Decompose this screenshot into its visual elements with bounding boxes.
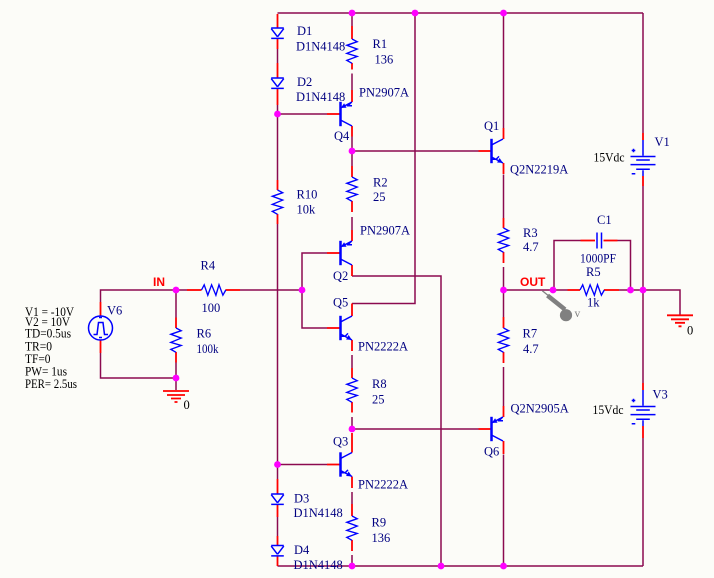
pin Q6 emitter <box>503 406 505 417</box>
svg-text:1000PF: 1000PF <box>580 252 616 266</box>
wire Q3 collector node to Q6 base <box>352 428 479 430</box>
pin R6 bottom <box>175 352 177 363</box>
resistor R7 <box>498 328 508 352</box>
svg-text:C1: C1 <box>597 213 612 227</box>
pin R7 top <box>503 317 505 328</box>
wire left rail node to D3 <box>277 465 279 480</box>
svg-text:R7: R7 <box>523 327 538 341</box>
wire Q4 collector to node <box>351 137 353 152</box>
wire OUT node to R7 <box>503 290 505 317</box>
svg-text:PN2907A: PN2907A <box>359 86 409 100</box>
svg-text:0: 0 <box>687 324 693 338</box>
wire Q1 emitter to R3 <box>503 175 505 219</box>
wire ground stem left <box>175 378 177 390</box>
wire -15V bottom rail <box>278 565 644 567</box>
resistor R10 <box>272 190 282 214</box>
svg-text:D1N4148: D1N4148 <box>294 506 343 520</box>
pin R9 top <box>351 504 353 516</box>
svg-text:Q5: Q5 <box>333 296 348 310</box>
pin R10 bottom <box>277 214 279 224</box>
node junction (643,290) <box>640 287 647 294</box>
wire Q5 collector to +rail <box>352 13 415 304</box>
pin V1 minus <box>642 176 644 186</box>
node junction (441,566) <box>438 563 445 570</box>
wire R9 bottom to -rail <box>351 555 353 566</box>
wire R2 bottom to Q2 emitter <box>351 217 353 230</box>
node junction (352,151) <box>349 148 356 155</box>
svg-text:D1N4148: D1N4148 <box>294 558 343 572</box>
node junction (176,378) <box>173 375 180 382</box>
resistor R6 <box>171 328 181 352</box>
diode D1 <box>271 28 284 38</box>
pin R6 top <box>175 318 177 329</box>
node junction (277.5,114) <box>274 111 281 118</box>
node junction (630.5,290) <box>627 287 634 294</box>
svg-text:15Vdc: 15Vdc <box>594 151 625 165</box>
node junction (503.5,13) <box>500 10 507 17</box>
svg-text:25: 25 <box>372 393 385 407</box>
voltage source V1 (battery) <box>631 140 656 176</box>
wire R7 bottom to Q6 emitter <box>503 367 505 406</box>
svg-text:D3: D3 <box>294 492 309 506</box>
wire left rail node to R10 <box>277 114 279 180</box>
wire node to R2 top <box>351 151 353 166</box>
svg-text:D2: D2 <box>297 75 312 89</box>
svg-text:v: v <box>575 308 581 320</box>
svg-text:0: 0 <box>184 398 190 412</box>
svg-text:V1: V1 <box>655 135 670 149</box>
pin R4 right <box>226 289 241 291</box>
node junction (415,13) <box>412 10 419 17</box>
pin Q3 emitter <box>351 477 353 489</box>
diode D2 <box>271 78 284 88</box>
pin C1 right <box>604 240 618 242</box>
pin R2 bottom <box>351 201 353 212</box>
wire Q6 collector to -rail <box>503 455 505 567</box>
pin V6 minus <box>100 340 102 353</box>
pin Q1 base <box>479 150 492 152</box>
svg-text:4.7: 4.7 <box>523 342 539 356</box>
voltage source V3 (battery) <box>631 390 656 426</box>
node junction (352,429) <box>349 426 356 433</box>
svg-text:PN2222A: PN2222A <box>358 340 408 354</box>
pin D1 anode <box>277 14 279 28</box>
wire right rail node to V3 <box>642 290 644 383</box>
node junction (176,290) <box>173 287 180 294</box>
pulse source V6 <box>89 316 113 340</box>
pin Q6 base <box>479 428 492 430</box>
resistor R1 <box>347 39 357 63</box>
svg-text:Q2N2905A: Q2N2905A <box>511 402 569 416</box>
pin R1 bottom <box>351 63 353 70</box>
ground 0 (right) <box>667 315 693 326</box>
wire rail node to right ground <box>643 290 680 315</box>
svg-text:136: 136 <box>372 531 391 545</box>
wire right rail V3 to bottom <box>642 438 644 566</box>
pin Q3 base <box>327 464 340 466</box>
node junction (352,13) <box>349 10 356 17</box>
transistor Q3 (NPN) <box>341 452 353 476</box>
wire Q3 base wire <box>278 464 328 466</box>
node junction (352,566) <box>349 563 356 570</box>
pin V3 minus <box>642 426 644 438</box>
pin V6 plus <box>100 302 102 316</box>
svg-text:V3: V3 <box>653 388 668 402</box>
svg-text:R10: R10 <box>297 188 318 202</box>
svg-text:TD=0.5us: TD=0.5us <box>25 327 71 341</box>
diode D3 <box>271 494 284 504</box>
wire R6 bottom to ground node <box>175 363 177 379</box>
pin R7 bottom <box>503 352 505 363</box>
resistor R8 <box>347 378 357 402</box>
svg-text:PN2907A: PN2907A <box>360 224 410 238</box>
svg-text:100: 100 <box>202 301 221 315</box>
wire R4 to Q2/Q5 base node <box>240 289 302 291</box>
wire left rail D3-D4 segment <box>277 517 279 536</box>
wire R1 bottom to Q4 emitter <box>351 74 353 91</box>
node junction (553,290) <box>550 287 557 294</box>
svg-text:15Vdc: 15Vdc <box>593 403 624 417</box>
wire left rail D1-D2 segment <box>277 49 279 63</box>
resistor R3 <box>498 228 508 252</box>
pin Q4 base <box>327 113 340 115</box>
pin R4 left <box>187 289 202 291</box>
pin V3 plus <box>642 383 644 390</box>
pin D3 anode <box>277 479 279 494</box>
svg-text:D1N4148: D1N4148 <box>296 90 345 104</box>
pin R10 top <box>277 180 279 190</box>
wire Q5 emitter to R8 <box>351 355 353 368</box>
svg-text:R1: R1 <box>373 37 388 51</box>
svg-text:Q1: Q1 <box>484 119 499 133</box>
svg-text:V6: V6 <box>107 304 122 318</box>
wire +15V top rail <box>278 12 644 14</box>
svg-text:PN2222A: PN2222A <box>358 478 408 492</box>
node junction (277.5,464.5) <box>274 461 281 468</box>
wire left rail D2 to node <box>277 105 279 114</box>
pin Q4 collector <box>351 126 353 137</box>
resistor R4 <box>202 285 226 295</box>
wire IN node to R6 <box>175 290 177 318</box>
svg-text:10k: 10k <box>297 203 317 217</box>
wire Q3 emitter to R9 <box>351 492 353 504</box>
wire right rail V1 to OUT-level node <box>642 186 644 290</box>
pin Q1 collector <box>503 128 505 139</box>
wire Q2 base bracket <box>302 253 327 328</box>
pin R3 bottom <box>503 252 505 263</box>
pin Q2 emitter <box>351 230 353 241</box>
pin C1 left <box>581 240 596 242</box>
svg-text:PER= 2.5us: PER= 2.5us <box>25 377 77 391</box>
pin Q5 base <box>327 327 340 329</box>
transistor Q5 (NPN) <box>341 316 353 340</box>
pin Q6 collector <box>503 441 505 454</box>
transistor Q2 (PNP) <box>341 241 353 265</box>
transistor Q6 (PNP) <box>492 417 504 441</box>
svg-text:4.7: 4.7 <box>523 240 539 254</box>
wire left rail R10 to Q3-base node <box>277 224 279 465</box>
svg-text:R3: R3 <box>523 226 538 240</box>
svg-text:R8: R8 <box>372 377 387 391</box>
pin Q5 collector <box>351 304 353 317</box>
pin V1 plus <box>642 133 644 140</box>
transistor Q4 (PNP) <box>341 102 353 126</box>
wire R1 top wire <box>351 13 353 26</box>
pin D1 cathode <box>277 39 279 50</box>
wire Q1 collector to +rail <box>503 13 505 128</box>
pin R8 bottom <box>351 402 353 413</box>
svg-text:Q6: Q6 <box>484 445 499 459</box>
pin D3 cathode <box>277 505 279 518</box>
svg-text:100k: 100k <box>197 342 220 356</box>
wire V6 bottom wire <box>101 353 177 378</box>
svg-text:136: 136 <box>375 53 394 67</box>
wire Q4 base wire <box>278 113 328 115</box>
pin R5 right <box>604 289 619 291</box>
svg-text:R5: R5 <box>586 265 601 279</box>
pin R5 left <box>568 289 581 291</box>
svg-text:Q2N2219A: Q2N2219A <box>510 163 568 177</box>
svg-text:D1N4148: D1N4148 <box>296 40 345 54</box>
wire C1 right riser <box>618 241 631 291</box>
wire OUT wire <box>504 289 568 291</box>
transistor Q1 (NPN) <box>492 139 504 163</box>
node junction (302,290) <box>299 287 306 294</box>
pin Q1 emitter <box>503 163 505 174</box>
svg-text:D1: D1 <box>297 24 312 38</box>
pin D2 anode <box>277 63 279 78</box>
wire R8 bottom to node <box>351 417 353 429</box>
svg-text:25: 25 <box>373 190 386 204</box>
svg-text:1k: 1k <box>587 296 600 310</box>
pin R3 top <box>503 218 505 228</box>
node junction (503.5,290) <box>500 287 507 294</box>
node junction (503.5,566) <box>500 563 507 570</box>
pin R8 top <box>351 368 353 378</box>
resistor R2 <box>347 177 357 201</box>
resistor R9 <box>347 516 357 540</box>
svg-text:R2: R2 <box>373 176 388 190</box>
svg-text:R9: R9 <box>372 516 387 530</box>
wire Q2 collector to -rail <box>352 276 441 566</box>
pin Q2 collector <box>351 265 353 276</box>
svg-text:IN: IN <box>153 275 165 289</box>
diode D4 <box>271 546 284 556</box>
pin R2 top <box>351 166 353 177</box>
pin Q4 emitter <box>351 90 353 102</box>
pin Q2 base <box>327 252 340 254</box>
pin Q5 emitter <box>351 340 353 351</box>
resistor R5 <box>580 285 604 295</box>
svg-text:OUT: OUT <box>520 275 546 289</box>
svg-text:D4: D4 <box>294 543 310 557</box>
svg-text:Q4: Q4 <box>334 129 350 143</box>
wire R3 bottom to OUT node <box>503 267 505 290</box>
svg-text:R4: R4 <box>201 259 216 273</box>
pin R1 top <box>351 26 353 39</box>
pin D4 anode <box>277 536 279 546</box>
svg-text:Q3: Q3 <box>333 435 348 449</box>
wire right rail top to V1 <box>642 13 644 133</box>
svg-text:Q2: Q2 <box>333 269 348 283</box>
wire IN wire to V6 <box>101 290 177 302</box>
wire R5 right to rail node <box>619 289 643 291</box>
capacitor C1 <box>597 233 602 249</box>
wire IN node to R4 <box>176 289 187 291</box>
wire C1 left riser <box>554 241 581 291</box>
pin R9 bottom <box>351 540 353 551</box>
ground 0 (left) <box>163 391 189 402</box>
pin D2 cathode <box>277 89 279 106</box>
wire Q1 base wire <box>352 150 479 152</box>
pin Q3 collector <box>351 433 353 453</box>
svg-text:R6: R6 <box>197 327 212 341</box>
voltage probe marker at OUT <box>542 291 572 322</box>
pin D4 cathode <box>277 556 279 566</box>
